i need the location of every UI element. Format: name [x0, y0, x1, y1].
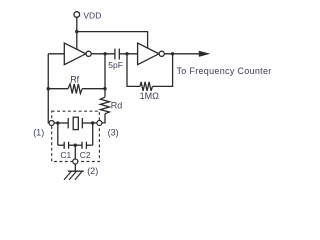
svg-text:C2: C2	[80, 150, 91, 160]
svg-text:(3): (3)	[108, 128, 119, 138]
svg-text:VDD: VDD	[83, 10, 101, 20]
svg-text:(1): (1)	[33, 127, 44, 137]
svg-text:Rd: Rd	[111, 101, 123, 111]
svg-text:1MΩ: 1MΩ	[140, 91, 160, 101]
svg-text:C1: C1	[60, 150, 71, 160]
svg-text:To Frequency Counter: To Frequency Counter	[177, 66, 272, 76]
svg-text:Rf: Rf	[70, 75, 79, 85]
svg-text:5pF: 5pF	[108, 60, 123, 70]
svg-text:(2): (2)	[87, 166, 98, 176]
